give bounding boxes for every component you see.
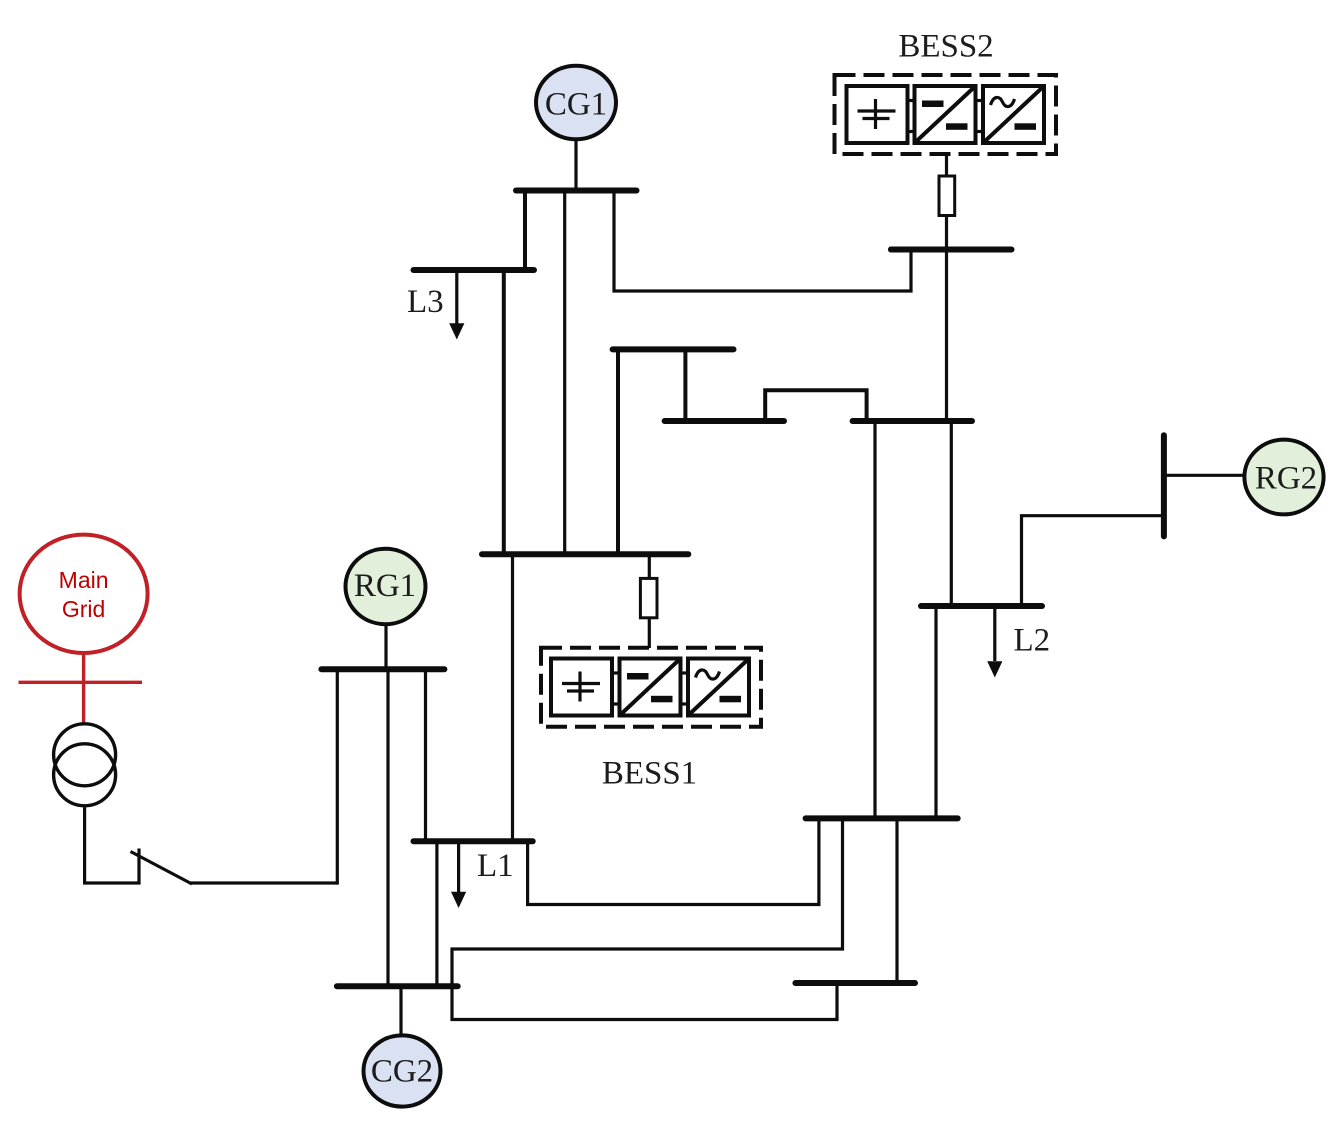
svg-text:L1: L1 (477, 848, 514, 884)
svg-text:RG1: RG1 (354, 568, 416, 604)
svg-text:L2: L2 (1014, 623, 1051, 659)
svg-text:BESS2: BESS2 (898, 29, 993, 65)
svg-text:CG2: CG2 (371, 1054, 433, 1090)
svg-text:Grid: Grid (62, 596, 105, 622)
svg-text:CG1: CG1 (545, 87, 607, 123)
svg-text:Main: Main (59, 567, 109, 593)
svg-text:BESS1: BESS1 (602, 756, 697, 792)
svg-text:L3: L3 (407, 284, 444, 320)
svg-text:RG2: RG2 (1255, 461, 1317, 497)
